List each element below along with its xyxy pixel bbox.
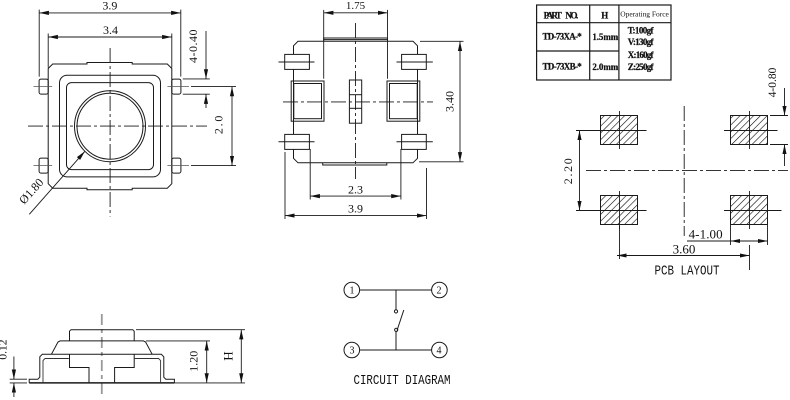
svg-text:4: 4 — [437, 346, 442, 357]
svg-text:V:130gf: V:130gf — [628, 37, 655, 47]
svg-text:4-0.40: 4-0.40 — [186, 29, 200, 63]
svg-text:1.75: 1.75 — [346, 0, 366, 12]
svg-text:Z:250gf: Z:250gf — [628, 62, 655, 72]
svg-text:TD-73XA-*: TD-73XA-* — [543, 32, 583, 42]
svg-text:PART: PART — [544, 11, 562, 21]
svg-text:2.0: 2.0 — [212, 116, 226, 134]
svg-text:3.40: 3.40 — [442, 91, 456, 112]
svg-text:4-1.00: 4-1.00 — [689, 227, 723, 242]
svg-text:PCB LAYOUT: PCB LAYOUT — [655, 265, 720, 280]
svg-text:2.3: 2.3 — [348, 182, 363, 196]
svg-text:4-0.80: 4-0.80 — [767, 67, 779, 97]
svg-text:3.9: 3.9 — [348, 201, 363, 215]
svg-text:TD-73XB-*: TD-73XB-* — [543, 61, 583, 71]
svg-text:0.12: 0.12 — [0, 339, 10, 359]
svg-text:CIRCUIT DIAGRAM: CIRCUIT DIAGRAM — [354, 373, 451, 389]
svg-text:H: H — [601, 11, 608, 21]
svg-text:Operating Force: Operating Force — [620, 10, 669, 18]
svg-text:2.0mm: 2.0mm — [592, 62, 618, 72]
svg-text:1.20: 1.20 — [187, 351, 201, 372]
svg-text:NO.: NO. — [565, 11, 578, 21]
svg-text:X:160gf: X:160gf — [628, 50, 655, 60]
svg-text:3.9: 3.9 — [102, 0, 117, 13]
svg-text:H: H — [220, 351, 235, 360]
svg-text:T:100gf: T:100gf — [628, 25, 655, 35]
svg-text:1.5mm: 1.5mm — [592, 32, 618, 42]
svg-text:1: 1 — [350, 286, 355, 297]
svg-text:2: 2 — [437, 286, 442, 297]
svg-text:3.60: 3.60 — [673, 242, 696, 257]
svg-text:3: 3 — [350, 346, 355, 357]
svg-text:3.4: 3.4 — [103, 23, 118, 37]
svg-text:2.20: 2.20 — [561, 158, 575, 184]
